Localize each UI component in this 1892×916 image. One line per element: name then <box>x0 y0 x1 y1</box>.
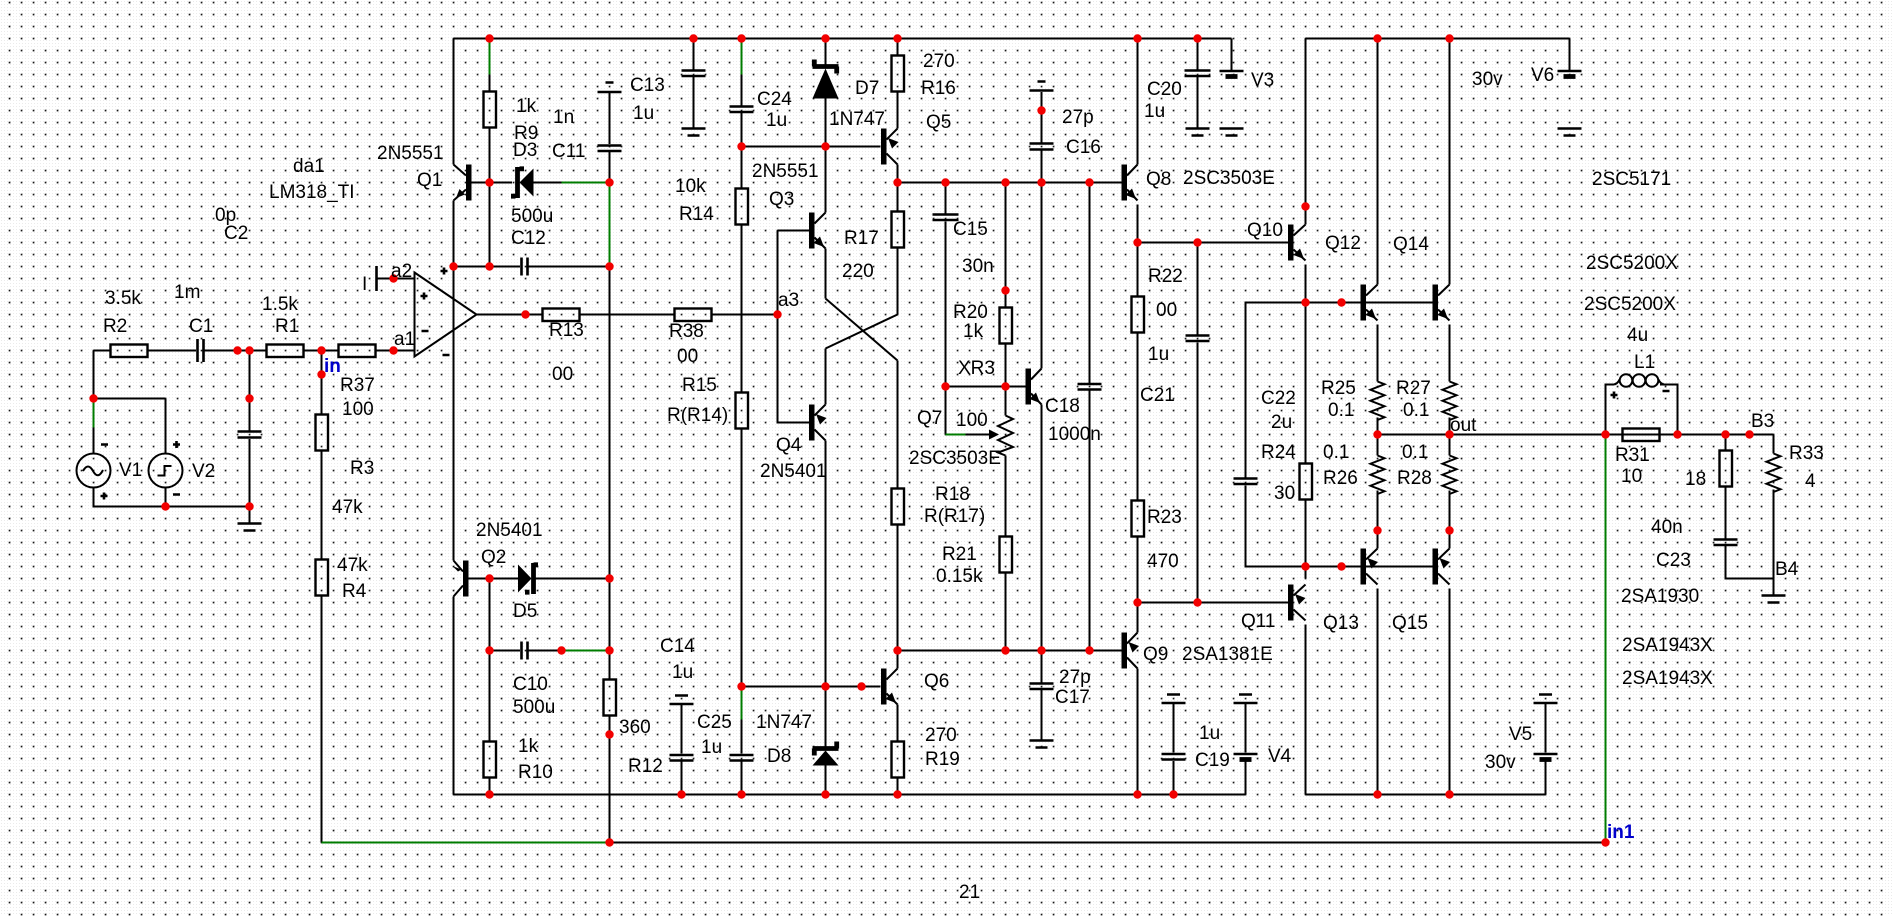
wire Q11 collector drop <box>1305 625 1307 795</box>
junction (897.5,794.5) <box>893 790 901 798</box>
wire feedback main <box>610 842 1606 844</box>
wire Q13 emitter riser <box>1377 531 1379 549</box>
svg-text:30v: 30v <box>1485 752 1516 773</box>
svg-text:C21: C21 <box>1140 385 1175 406</box>
wire R16 to Q5 <box>897 92 899 129</box>
source V1 polarity <box>101 445 109 500</box>
svg-text:2SC5200X: 2SC5200X <box>1584 294 1676 315</box>
wire C20 body <box>1197 77 1199 128</box>
resistor R20 <box>1000 308 1013 344</box>
junction (1449.5,794.5) <box>1445 790 1453 798</box>
transistor Q7 2SC3503E <box>1026 369 1032 405</box>
svg-text:R21: R21 <box>942 544 977 565</box>
svg-text:Q1: Q1 <box>417 170 442 191</box>
svg-text:C17: C17 <box>1055 687 1090 708</box>
svg-text:V3: V3 <box>1251 70 1274 91</box>
junction (1449.5,530.5) <box>1445 526 1453 534</box>
source V2 <box>149 454 183 488</box>
transistor Q1 2N5551 <box>466 165 472 201</box>
wire C22 bottom link <box>1246 486 1306 567</box>
wire C17 top <box>1041 651 1043 683</box>
wire D3 left <box>490 182 513 184</box>
junction (1137.5,38.5) <box>1133 34 1141 42</box>
resistor R28 <box>1443 456 1457 495</box>
svg-text:C15: C15 <box>953 219 988 240</box>
wire L1 right <box>1660 385 1678 435</box>
wire C11 bottom <box>609 152 611 183</box>
resistor R4 <box>316 560 329 596</box>
svg-text:0.1: 0.1 <box>1323 442 1349 463</box>
svg-text:D8: D8 <box>767 746 791 767</box>
junction (489.5,182.5) <box>485 178 493 186</box>
junction (1137.5,794.5) <box>1133 790 1141 798</box>
svg-text:2SC5200X: 2SC5200X <box>1586 253 1678 274</box>
svg-text:a3: a3 <box>778 290 799 311</box>
junction (1377.5,38.5) <box>1373 34 1381 42</box>
svg-text:1k: 1k <box>963 321 984 342</box>
svg-text:B3: B3 <box>1751 411 1774 432</box>
wire R20 bottom <box>1005 344 1007 387</box>
wire C25 top <box>741 720 743 754</box>
capacitor C24 <box>730 107 754 113</box>
junction (1377.5,794.5) <box>1373 790 1381 798</box>
wire XR3 row <box>946 386 1026 388</box>
junction (1341.5,302.5) <box>1337 298 1345 306</box>
transistor Q11 <box>1288 585 1294 621</box>
wire D3 right <box>534 182 562 184</box>
junction (945.5,182.5) <box>941 178 949 186</box>
wire R12 to feedback <box>609 735 611 843</box>
svg-text:Q10: Q10 <box>1247 220 1283 241</box>
wire R25 to out <box>1377 418 1379 435</box>
wire C13 body <box>609 93 611 144</box>
resistor R19 <box>892 742 905 778</box>
wire Q14 collector riser <box>1449 39 1451 285</box>
svg-text:in1: in1 <box>1607 822 1635 843</box>
svg-text:270: 270 <box>923 51 955 72</box>
svg-text:LM318_TI: LM318_TI <box>269 182 355 203</box>
wire R17 top <box>897 183 899 212</box>
wire Q11 emitter riser <box>1305 567 1307 579</box>
wire R28 top <box>1449 435 1451 456</box>
capacitor C17 <box>1030 684 1054 690</box>
wire Q15 collector drop <box>1449 589 1451 795</box>
capacitor C18 <box>1078 384 1102 390</box>
svg-text:2N5401: 2N5401 <box>760 461 827 482</box>
svg-text:R38: R38 <box>669 321 704 342</box>
wire V3 drop <box>1231 39 1233 71</box>
resistor R37 vertical <box>316 415 329 451</box>
svg-text:da1: da1 <box>293 156 325 177</box>
ground below C2 <box>238 524 262 531</box>
wire R4 down <box>321 596 323 843</box>
battery V6 <box>1558 70 1582 73</box>
wire R37h to a1 <box>376 350 415 352</box>
junction (1749.5,434.5) <box>1745 430 1753 438</box>
wire C10 green <box>562 650 610 652</box>
wire D5 left <box>490 578 519 580</box>
svg-text:out: out <box>1450 415 1477 436</box>
wire a2 probe <box>377 278 415 280</box>
svg-text:R13: R13 <box>549 320 584 341</box>
wire Q6 emitter drop <box>897 705 899 742</box>
svg-text:00: 00 <box>1156 300 1177 321</box>
junction (861.5,686.5) <box>857 682 865 690</box>
wire src left drop <box>93 351 95 399</box>
svg-text:R12: R12 <box>628 756 663 777</box>
wire R33 bottom <box>1773 490 1775 579</box>
svg-text:30v: 30v <box>1472 69 1503 90</box>
svg-text:Q2: Q2 <box>481 547 506 568</box>
svg-text:1u: 1u <box>766 110 787 131</box>
resistor R31 <box>1623 429 1660 442</box>
junction (525.5,314.5) <box>521 310 529 318</box>
wire Q3 emitter drop <box>825 249 827 299</box>
svg-text:R25: R25 <box>1321 378 1356 399</box>
junction (1605.5,434.5) <box>1601 430 1609 438</box>
svg-text:R14: R14 <box>679 204 714 225</box>
junction (825.5,686.5) <box>821 682 829 690</box>
svg-text:R3: R3 <box>350 458 374 479</box>
wire C23 to B4 <box>1726 546 1774 579</box>
wire L1 left <box>1606 385 1615 435</box>
junction (1605.5,842.5) <box>1601 838 1609 846</box>
capacitor C13 with top ground <box>598 83 622 152</box>
svg-text:0.1: 0.1 <box>1328 400 1354 421</box>
svg-text:1k: 1k <box>516 96 537 117</box>
svg-text:C12: C12 <box>511 228 546 249</box>
svg-text:C24: C24 <box>757 89 792 110</box>
svg-text:270: 270 <box>925 725 957 746</box>
svg-text:R33: R33 <box>1789 443 1824 464</box>
svg-text:R16: R16 <box>921 78 956 99</box>
wire V5 body <box>1545 704 1547 753</box>
capacitor C15 <box>933 215 959 221</box>
wire R19 bottom <box>897 778 899 795</box>
capacitor C2 <box>238 432 262 438</box>
svg-text:2SC5171: 2SC5171 <box>1592 169 1671 190</box>
wire Q1 collector riser <box>453 39 455 165</box>
svg-text:C22: C22 <box>1261 388 1296 409</box>
resistor R32 18ohm <box>1720 451 1733 487</box>
wire a3 riser <box>777 231 779 315</box>
wire Q3 base <box>778 230 810 232</box>
svg-text:C18: C18 <box>1045 396 1080 417</box>
wire R38 to a3 <box>712 314 778 316</box>
wire in1 green <box>1605 435 1607 843</box>
resistor R14 <box>736 189 749 225</box>
junction (1005.5,386.5) <box>1001 382 1009 390</box>
wire R22 top <box>1137 243 1139 297</box>
svg-text:1N747: 1N747 <box>756 712 812 733</box>
svg-text:Q6: Q6 <box>924 671 949 692</box>
svg-text:C11: C11 <box>552 141 585 162</box>
wire V6 drop <box>1569 39 1571 71</box>
svg-text:0.1: 0.1 <box>1402 442 1428 463</box>
junction (453.5,266.5) <box>449 262 457 270</box>
wire Q6 base row <box>742 686 881 688</box>
wire C16 bottom <box>1041 151 1043 183</box>
svg-text:1000n: 1000n <box>1048 424 1101 445</box>
svg-text:30: 30 <box>1274 483 1295 504</box>
wire C25 bottom <box>741 762 743 795</box>
svg-text:L1: L1 <box>1634 352 1655 373</box>
wire Q13 collector drop <box>1377 589 1379 795</box>
wire pnp base row <box>1246 566 1433 568</box>
wire Q8 emitter drop <box>1137 205 1139 243</box>
svg-text:2SC3503E: 2SC3503E <box>1183 168 1275 189</box>
wire C10 left <box>490 650 521 652</box>
wire D3 to C11 green <box>562 182 610 184</box>
junction (945.5,386.5) <box>941 382 949 390</box>
junction (693.5,38.5) <box>689 34 697 42</box>
capacitor C10 <box>522 642 528 660</box>
svg-text:3.5k: 3.5k <box>105 288 141 309</box>
junction (1197.5,38.5) <box>1193 34 1201 42</box>
junction (741.5,146.5) <box>737 142 745 150</box>
resistor R38 <box>675 309 712 322</box>
wire V2 link <box>94 398 166 400</box>
wire C22 top link <box>1246 303 1306 478</box>
transistor Q14 <box>1433 285 1439 321</box>
wire R28 bottom <box>1449 491 1451 531</box>
svg-text:C14: C14 <box>660 636 695 657</box>
wire wiper <box>966 434 992 436</box>
svg-text:R(R14): R(R14) <box>667 405 728 426</box>
wire Q9 emitter riser <box>1137 603 1139 633</box>
wire cap693 top <box>693 39 695 70</box>
svg-text:10: 10 <box>1621 466 1642 487</box>
op-amp input signs <box>421 293 429 332</box>
wire R14 top <box>741 147 743 189</box>
svg-text:C2: C2 <box>224 223 248 244</box>
ground below C20 <box>1186 129 1210 136</box>
capacitor decoupling x693 <box>682 71 706 77</box>
wire V4 body <box>1245 704 1247 753</box>
wire cross to R18 <box>897 361 899 489</box>
wire R23 bottom <box>1137 537 1139 603</box>
svg-text:00: 00 <box>552 364 573 385</box>
svg-text:1u: 1u <box>1144 101 1165 122</box>
junction (741.5,794.5) <box>737 790 745 798</box>
wire top rail left <box>454 38 1232 40</box>
junction (393.5,278.5) <box>389 274 397 282</box>
wire C12 row left <box>454 266 521 268</box>
svg-text:1u: 1u <box>1148 344 1169 365</box>
svg-text:V2: V2 <box>192 461 215 482</box>
svg-text:V4: V4 <box>1268 746 1292 767</box>
zener diode D7 <box>813 60 839 74</box>
wire cap693 body <box>693 77 695 128</box>
transistor Q3 2N5551 <box>809 213 815 249</box>
wire wiper green <box>946 434 966 436</box>
wire opamp out <box>477 314 543 316</box>
wire R26 bottom <box>1377 491 1379 531</box>
svg-text:Q9: Q9 <box>1143 644 1168 665</box>
wire cross Q4 diag <box>826 315 898 349</box>
svg-text:00: 00 <box>677 346 698 367</box>
svg-text:R17: R17 <box>844 228 879 249</box>
wire C14 body <box>681 705 683 754</box>
svg-text:V6: V6 <box>1531 65 1554 86</box>
wire R17 to cross <box>897 248 899 315</box>
junction (489.5,38.5) <box>485 34 493 42</box>
ground below B4 <box>1762 596 1786 603</box>
svg-text:220: 220 <box>842 261 874 282</box>
svg-text:1u: 1u <box>1199 723 1220 744</box>
wire R26 top <box>1377 435 1379 456</box>
transistor Q2 2N5401 <box>463 561 469 597</box>
junction (777.5,314.5) <box>773 310 781 318</box>
svg-text:C25: C25 <box>697 712 732 733</box>
wire Q12 collector riser <box>1377 39 1379 285</box>
wire bottom rail left <box>454 794 1246 796</box>
svg-text:B4: B4 <box>1775 559 1799 580</box>
transistor Q15 <box>1433 549 1439 585</box>
capacitor C14 with open top <box>670 696 694 761</box>
svg-text:C10: C10 <box>513 674 548 695</box>
wire vas row <box>898 182 1122 184</box>
svg-text:XR3: XR3 <box>958 358 995 379</box>
svg-text:R23: R23 <box>1147 507 1182 528</box>
potentiometer XR3 wiper arrow <box>989 430 999 440</box>
wire R9 top <box>489 75 491 92</box>
wire D7 top <box>825 39 827 65</box>
resistor R1 <box>267 345 304 358</box>
junction (1197.5,602.5) <box>1193 598 1201 606</box>
junction (321.5,374.5) <box>317 370 325 378</box>
wire R24 bottom <box>1305 500 1307 567</box>
svg-text:40n: 40n <box>1651 517 1683 538</box>
wire C19 bottom <box>1173 761 1175 795</box>
junction (1137.5,602.5) <box>1133 598 1141 606</box>
wire R16 top <box>897 39 899 56</box>
junction (825.5,146.5) <box>821 142 829 150</box>
junction (1005.5,290.5) <box>1001 286 1009 294</box>
svg-text:R4: R4 <box>342 581 367 602</box>
junction (1305.5,206.5) <box>1301 202 1309 210</box>
svg-text:2N5401: 2N5401 <box>476 520 543 541</box>
svg-text:Q12: Q12 <box>1325 233 1361 254</box>
wire opamp power <box>453 201 455 561</box>
svg-text:R2: R2 <box>103 316 127 337</box>
potentiometer XR3 zigzag <box>998 416 1013 456</box>
resistor R2 <box>111 345 148 358</box>
svg-text:27p: 27p <box>1062 107 1094 128</box>
op-amp power signs <box>441 268 450 356</box>
svg-text:C20: C20 <box>1147 79 1182 100</box>
junction (897.5,182.5) <box>893 178 901 186</box>
svg-text:Q7: Q7 <box>917 408 942 429</box>
ground above C16 <box>1030 82 1054 91</box>
svg-text:R18: R18 <box>935 484 970 505</box>
transistor Q10 <box>1288 225 1294 261</box>
wire B4 gnd stub <box>1773 579 1775 595</box>
junction (1041.5,110.5) <box>1037 106 1045 114</box>
wire Q6 collector riser <box>897 651 899 669</box>
junction (609.5,182.5) <box>605 178 613 186</box>
svg-text:R37: R37 <box>340 375 375 396</box>
resistor R9 <box>484 92 497 128</box>
transistor Q8 2SC3503E <box>1122 165 1128 201</box>
resistor R33 <box>1767 454 1781 493</box>
svg-text:Q4: Q4 <box>776 435 802 456</box>
svg-text:1n: 1n <box>553 107 574 128</box>
svg-text:R24: R24 <box>1261 442 1296 463</box>
wire D5 right <box>536 578 610 580</box>
zener diode D8 <box>813 742 839 756</box>
wire R9 to D3 node <box>489 128 491 183</box>
svg-text:R28: R28 <box>1397 468 1432 489</box>
wire V1 top green <box>93 399 95 428</box>
junction (93.5,398.5) <box>89 394 97 402</box>
wire R37v to R4 <box>321 451 323 560</box>
junction (249.5,506.5) <box>245 502 253 510</box>
svg-text:R(R17): R(R17) <box>924 506 985 527</box>
wire R2 to C1 <box>148 350 197 352</box>
svg-text:Q11: Q11 <box>1241 611 1276 632</box>
wire Q15 emitter riser <box>1449 531 1451 549</box>
wire Q4 collector drop <box>825 441 827 687</box>
wire R12 bottom <box>609 716 611 735</box>
junction (1005.5,650.5) <box>1001 646 1009 654</box>
junction (1041.5,182.5) <box>1037 178 1045 186</box>
resistor R15 <box>736 393 749 429</box>
svg-text:10k: 10k <box>675 176 706 197</box>
resistor R25 <box>1371 382 1385 421</box>
capacitor C25 <box>730 755 754 761</box>
wire V2 top <box>165 399 167 454</box>
resistor R17 <box>892 212 905 248</box>
wire C10 right <box>529 650 562 652</box>
wire bottom rail right <box>1306 794 1546 796</box>
svg-text:Q15: Q15 <box>1392 613 1428 634</box>
wire R21 bottom <box>1005 573 1007 651</box>
ground below V3 <box>1220 129 1244 136</box>
svg-text:47k: 47k <box>337 555 368 576</box>
wire C20 top <box>1197 39 1199 70</box>
wire C25 green <box>741 687 743 720</box>
resistor R24 <box>1300 464 1313 500</box>
svg-text:a2: a2 <box>391 261 412 282</box>
junction (1005.5,182.5) <box>1001 178 1009 186</box>
zener diode D3 <box>520 169 534 197</box>
ground below V6 <box>1558 129 1582 136</box>
wire C24 top <box>741 75 743 106</box>
wire R27 to out <box>1449 418 1451 435</box>
resistor R16 <box>892 56 905 92</box>
wire Q2 base <box>469 578 490 580</box>
wire V1 bottom <box>94 488 250 507</box>
capacitor C22 <box>1234 479 1258 485</box>
wire C21 top <box>1197 243 1199 335</box>
junction (489.5,794.5) <box>485 790 493 798</box>
junction (1089.5,650.5) <box>1085 646 1093 654</box>
wire V5 riser <box>1545 761 1547 795</box>
wire Q10 collector riser <box>1305 39 1307 225</box>
svg-text:D5: D5 <box>513 601 537 622</box>
junction (609.5,842.5) <box>605 838 613 846</box>
junction (681.5,794.5) <box>677 790 685 798</box>
svg-text:V5: V5 <box>1509 724 1532 745</box>
wire R9 top green <box>489 39 491 75</box>
junction (1173.5,794.5) <box>1169 790 1177 798</box>
wire Q3 base row <box>742 146 881 148</box>
junction (897.5,38.5) <box>893 34 901 42</box>
svg-text:2SA1943X: 2SA1943X <box>1622 635 1713 656</box>
svg-text:a1: a1 <box>394 329 415 350</box>
wire R32 to C23 <box>1725 487 1727 539</box>
